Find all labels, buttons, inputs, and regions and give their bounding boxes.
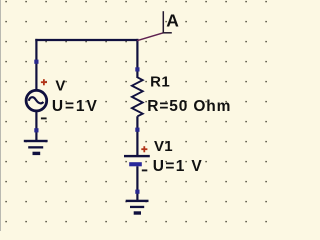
- sine wave inside source: [29, 97, 44, 103]
- left border edge: [0, 0, 1, 231]
- svg-text:R1: R1: [150, 73, 170, 90]
- wire top horizontal: [35, 39, 138, 41]
- minus sign of source V: [41, 117, 47, 119]
- plus sign of battery V1: [141, 146, 147, 152]
- battery long plate: [124, 155, 150, 157]
- pin square battery top: [135, 128, 139, 132]
- node A underline: [163, 32, 172, 34]
- AC source V circle: [26, 90, 47, 111]
- svg-text:V1: V1: [154, 138, 173, 155]
- resistor R1 zigzag: [132, 77, 143, 116]
- pin square source top: [34, 60, 38, 64]
- ground left bar3: [33, 152, 41, 155]
- node A leader diagonal: [137, 33, 163, 41]
- svg-text:V: V: [55, 77, 65, 94]
- ground right bar3: [134, 211, 141, 214]
- node A tick vertical: [162, 11, 164, 33]
- pin square right ground: [135, 190, 139, 194]
- svg-text:R=50 Ohm: R=50 Ohm: [147, 98, 231, 115]
- ground right bar2: [130, 206, 144, 208]
- pin square left ground: [34, 128, 38, 132]
- wire right vertical top to resistor: [136, 39, 138, 78]
- ground left bar2: [28, 146, 43, 148]
- pin square resistor top: [135, 67, 139, 71]
- svg-text:U=1V: U=1V: [52, 98, 99, 115]
- wire left vertical to source: [35, 39, 37, 89]
- plus sign of source V: [41, 79, 47, 85]
- svg-text:U=1 V: U=1 V: [153, 158, 203, 175]
- minus sign of battery V1: [142, 169, 148, 171]
- wire resistor bottom to battery: [136, 116, 138, 155]
- svg-text:A: A: [166, 10, 179, 30]
- ground right bar1: [126, 200, 149, 202]
- ground left bar1: [24, 140, 48, 142]
- wire source bottom to ground: [35, 111, 37, 141]
- battery short plate (blue): [129, 162, 142, 166]
- wire battery bottom to ground: [136, 166, 138, 200]
